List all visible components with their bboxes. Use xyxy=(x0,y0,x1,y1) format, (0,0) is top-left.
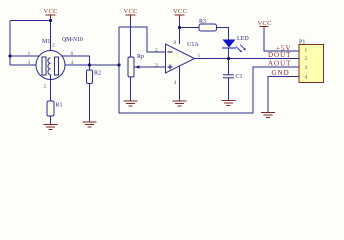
node R2 top xyxy=(88,63,91,66)
LED D1 xyxy=(223,40,236,48)
svg-text:4: 4 xyxy=(174,80,177,86)
capacitor C1 xyxy=(223,75,234,78)
svg-text:U1A: U1A xyxy=(187,42,199,48)
resistor R2 xyxy=(87,70,93,84)
power VCC3 xyxy=(175,15,185,20)
svg-text:VCC: VCC xyxy=(44,8,58,15)
wire top horizontal xyxy=(10,20,51,22)
resistor R1 xyxy=(47,101,54,116)
potentiometer Rp xyxy=(128,57,134,77)
ground below pot xyxy=(124,101,138,106)
op-amp U1A xyxy=(166,44,195,73)
svg-text:DOUT: DOUT xyxy=(268,51,291,59)
wire C1 stub xyxy=(228,59,230,75)
svg-text:VCC: VCC xyxy=(124,8,138,15)
wire pot to ground xyxy=(130,77,132,101)
wire left vertical xyxy=(9,21,11,66)
pot wiper arrow xyxy=(135,65,140,69)
svg-text:1: 1 xyxy=(305,48,308,54)
sensor M1 circle xyxy=(36,51,65,80)
svg-text:C1: C1 xyxy=(236,74,243,80)
node AOUT tap xyxy=(117,63,120,66)
svg-text:VCC: VCC xyxy=(258,20,272,27)
svg-text:QM-N10: QM-N10 xyxy=(62,37,83,43)
svg-text:AOUT: AOUT xyxy=(268,60,291,68)
ground below C1 xyxy=(222,101,236,106)
svg-text:R1: R1 xyxy=(56,103,63,109)
wire pin3 row xyxy=(10,64,43,66)
svg-text:1: 1 xyxy=(198,53,201,59)
svg-text:5: 5 xyxy=(44,84,47,90)
ground below R1 xyxy=(44,125,58,130)
wire R3 branch xyxy=(180,27,200,29)
power VCC2 xyxy=(126,15,136,20)
power VCC4 xyxy=(260,27,269,31)
node R3 tap xyxy=(178,26,181,29)
wire AOUT riser xyxy=(119,27,299,113)
svg-text:3: 3 xyxy=(28,60,31,66)
power VCC1 xyxy=(46,15,56,20)
wire VCC2 to pot xyxy=(130,20,132,57)
resistor R3 xyxy=(199,24,217,31)
sensor bottom pin wire xyxy=(50,75,52,102)
wire to opamp minus xyxy=(119,27,166,52)
ground below opamp xyxy=(173,101,187,106)
svg-text:3: 3 xyxy=(155,63,158,69)
wire opamp output / DOUT xyxy=(195,58,300,60)
ground below GND row xyxy=(261,113,275,118)
wire R2 to ground xyxy=(89,84,91,122)
sensor heater coil xyxy=(48,58,51,75)
wire VCC3 to opamp pin8 xyxy=(179,20,181,44)
svg-text:VCC: VCC xyxy=(173,8,187,15)
opamp minus xyxy=(168,51,173,53)
sensor left plate xyxy=(42,57,46,75)
pot wiper wire xyxy=(135,66,166,68)
wire pin4 row xyxy=(59,64,120,66)
opamp plus xyxy=(168,65,173,70)
connector P1 xyxy=(299,45,324,83)
connector pin numbers xyxy=(305,48,308,81)
wire pin1 row xyxy=(10,55,43,57)
svg-text:M1: M1 xyxy=(42,39,50,45)
wire opamp pin4 to ground xyxy=(179,66,181,101)
wire R1 to ground xyxy=(50,116,52,124)
svg-text:P1: P1 xyxy=(299,40,305,46)
svg-text:R3: R3 xyxy=(199,19,206,25)
svg-text:4: 4 xyxy=(305,75,308,81)
LED arrows xyxy=(236,45,246,53)
ground below R2 xyxy=(83,122,97,127)
node VCC1 tap xyxy=(49,19,52,22)
svg-text:LED: LED xyxy=(237,36,249,42)
svg-text:GND: GND xyxy=(272,69,290,77)
resistor R2 stub xyxy=(89,65,91,70)
wire LED to DOUT row xyxy=(228,48,230,59)
wire C1 to ground xyxy=(228,78,230,100)
node LED output xyxy=(227,57,230,60)
wire VCC1 to sensor top xyxy=(50,20,52,58)
svg-text:1: 1 xyxy=(28,51,31,57)
junction node dots xyxy=(8,19,230,67)
sensor right plate xyxy=(55,57,59,75)
wire GND row xyxy=(268,77,299,113)
svg-text:R2: R2 xyxy=(94,71,101,77)
wire +5V xyxy=(264,30,299,51)
svg-text:2: 2 xyxy=(52,43,55,49)
svg-text:2: 2 xyxy=(305,56,308,62)
svg-text:3: 3 xyxy=(305,65,308,71)
svg-text:8: 8 xyxy=(174,40,177,46)
svg-text:6: 6 xyxy=(71,51,74,57)
svg-text:2: 2 xyxy=(155,48,158,54)
LED cathode bar xyxy=(222,47,236,49)
svg-text:Rp: Rp xyxy=(137,54,144,60)
node left pin1 xyxy=(8,54,11,57)
wire R3 to LED xyxy=(217,28,229,41)
svg-text:4: 4 xyxy=(71,60,74,66)
wire pin6 row xyxy=(59,56,90,65)
